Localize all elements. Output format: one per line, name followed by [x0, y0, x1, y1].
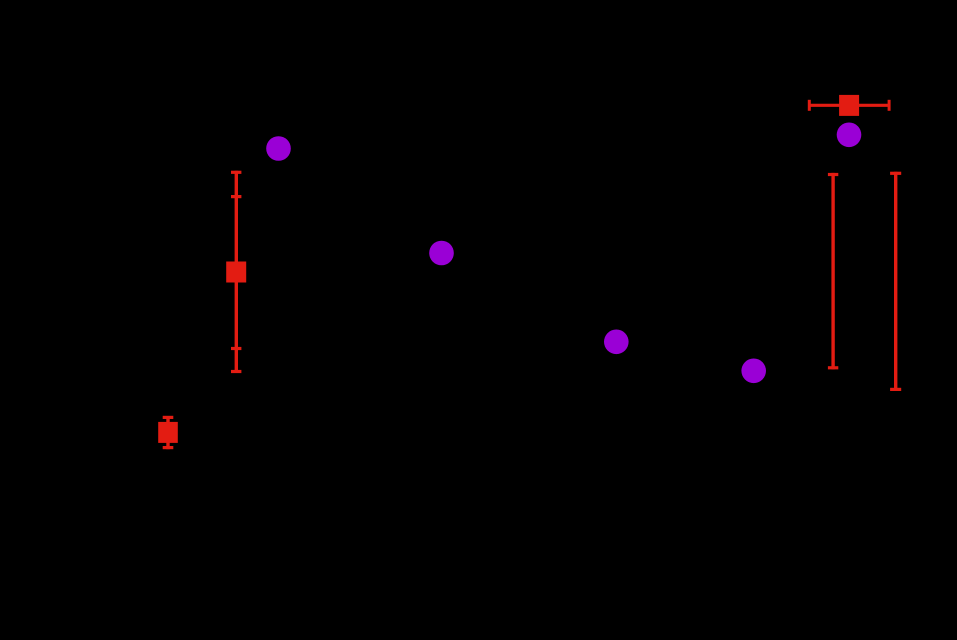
- purple circle marker 5: [741, 359, 766, 384]
- error bar (vertical) for red point C: [163, 416, 174, 449]
- error bar (horizontal) for red point A: [809, 100, 889, 111]
- purple circle marker 4: [604, 330, 629, 355]
- purple circle marker 1: [266, 136, 291, 161]
- purple circle marker 2: [837, 123, 862, 148]
- red square marker C: [158, 422, 178, 443]
- red square marker A: [839, 95, 859, 116]
- red square marker B: [226, 262, 246, 283]
- bare vertical error bar E: [890, 172, 901, 391]
- purple circle marker 3: [429, 241, 454, 266]
- error bar (vertical, double caps) for red point B: [231, 171, 241, 373]
- bare vertical error bar D: [828, 173, 838, 370]
